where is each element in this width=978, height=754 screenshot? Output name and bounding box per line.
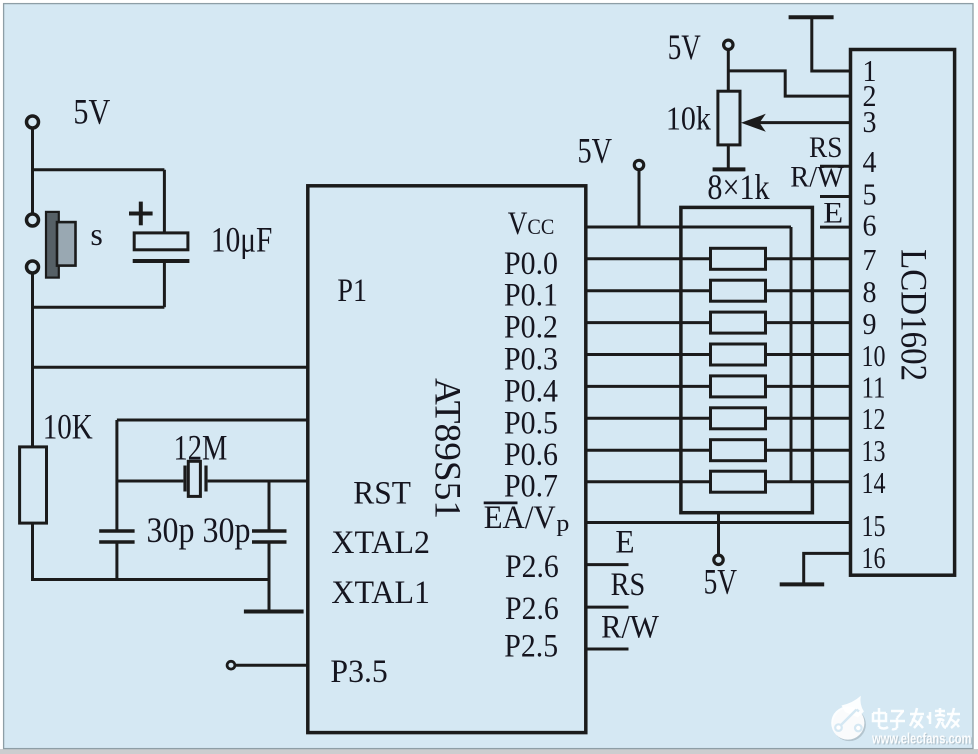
svg-text:E: E — [823, 196, 843, 229]
svg-text:7: 7 — [863, 242, 877, 277]
svg-text:5V: 5V — [704, 562, 737, 602]
svg-text:R/W: R/W — [790, 161, 844, 194]
svg-text:P0.0: P0.0 — [504, 246, 558, 282]
svg-text:RST: RST — [353, 475, 411, 511]
svg-text:EA/V: EA/V — [484, 500, 556, 536]
svg-text:P0.5: P0.5 — [504, 405, 558, 441]
svg-text:P2.6: P2.6 — [505, 591, 559, 627]
svg-text:13: 13 — [862, 433, 886, 468]
svg-text:10K: 10K — [43, 407, 93, 447]
svg-text:6: 6 — [863, 208, 877, 243]
svg-text:CC: CC — [527, 214, 554, 239]
svg-text:4: 4 — [863, 144, 877, 179]
svg-text:P2.6: P2.6 — [505, 549, 559, 585]
svg-text:5V: 5V — [668, 27, 701, 67]
svg-text:5V: 5V — [578, 131, 613, 171]
svg-text:9: 9 — [863, 306, 877, 341]
svg-text:www.elecfans.com: www.elecfans.com — [871, 732, 971, 748]
svg-text:10k: 10k — [666, 101, 711, 138]
svg-text:8×1k: 8×1k — [707, 167, 769, 207]
svg-text:12: 12 — [862, 401, 886, 436]
svg-text:10: 10 — [862, 338, 886, 373]
svg-text:XTAL2: XTAL2 — [331, 525, 430, 561]
svg-text:14: 14 — [862, 465, 886, 500]
svg-text:10μF: 10μF — [211, 219, 272, 259]
svg-text:p: p — [556, 511, 569, 537]
svg-text:AT89S51: AT89S51 — [427, 378, 468, 519]
svg-text:15: 15 — [862, 508, 886, 543]
svg-text:E: E — [615, 525, 634, 561]
svg-text:P1: P1 — [337, 273, 367, 309]
svg-text:P2.5: P2.5 — [504, 629, 558, 665]
svg-text:3: 3 — [863, 104, 877, 139]
svg-text:LCD1602: LCD1602 — [893, 249, 934, 381]
svg-text:8: 8 — [863, 274, 877, 309]
svg-text:P0.2: P0.2 — [504, 310, 558, 346]
svg-text:s: s — [90, 216, 102, 252]
svg-text:11: 11 — [862, 370, 886, 405]
svg-text:RS: RS — [611, 567, 646, 603]
svg-text:5: 5 — [863, 177, 877, 212]
svg-text:P0.3: P0.3 — [504, 342, 558, 378]
svg-text:30p: 30p — [203, 510, 251, 550]
svg-text:P0.1: P0.1 — [504, 278, 558, 314]
svg-text:16: 16 — [862, 540, 886, 575]
svg-text:V: V — [508, 206, 528, 242]
svg-text:R/W: R/W — [601, 609, 659, 645]
svg-text:XTAL1: XTAL1 — [331, 575, 430, 611]
svg-text:5V: 5V — [73, 92, 110, 132]
svg-text:RS: RS — [809, 131, 842, 164]
svg-text:P3.5: P3.5 — [330, 654, 387, 690]
svg-text:30p: 30p — [147, 510, 195, 550]
svg-text:P0.4: P0.4 — [504, 373, 558, 409]
